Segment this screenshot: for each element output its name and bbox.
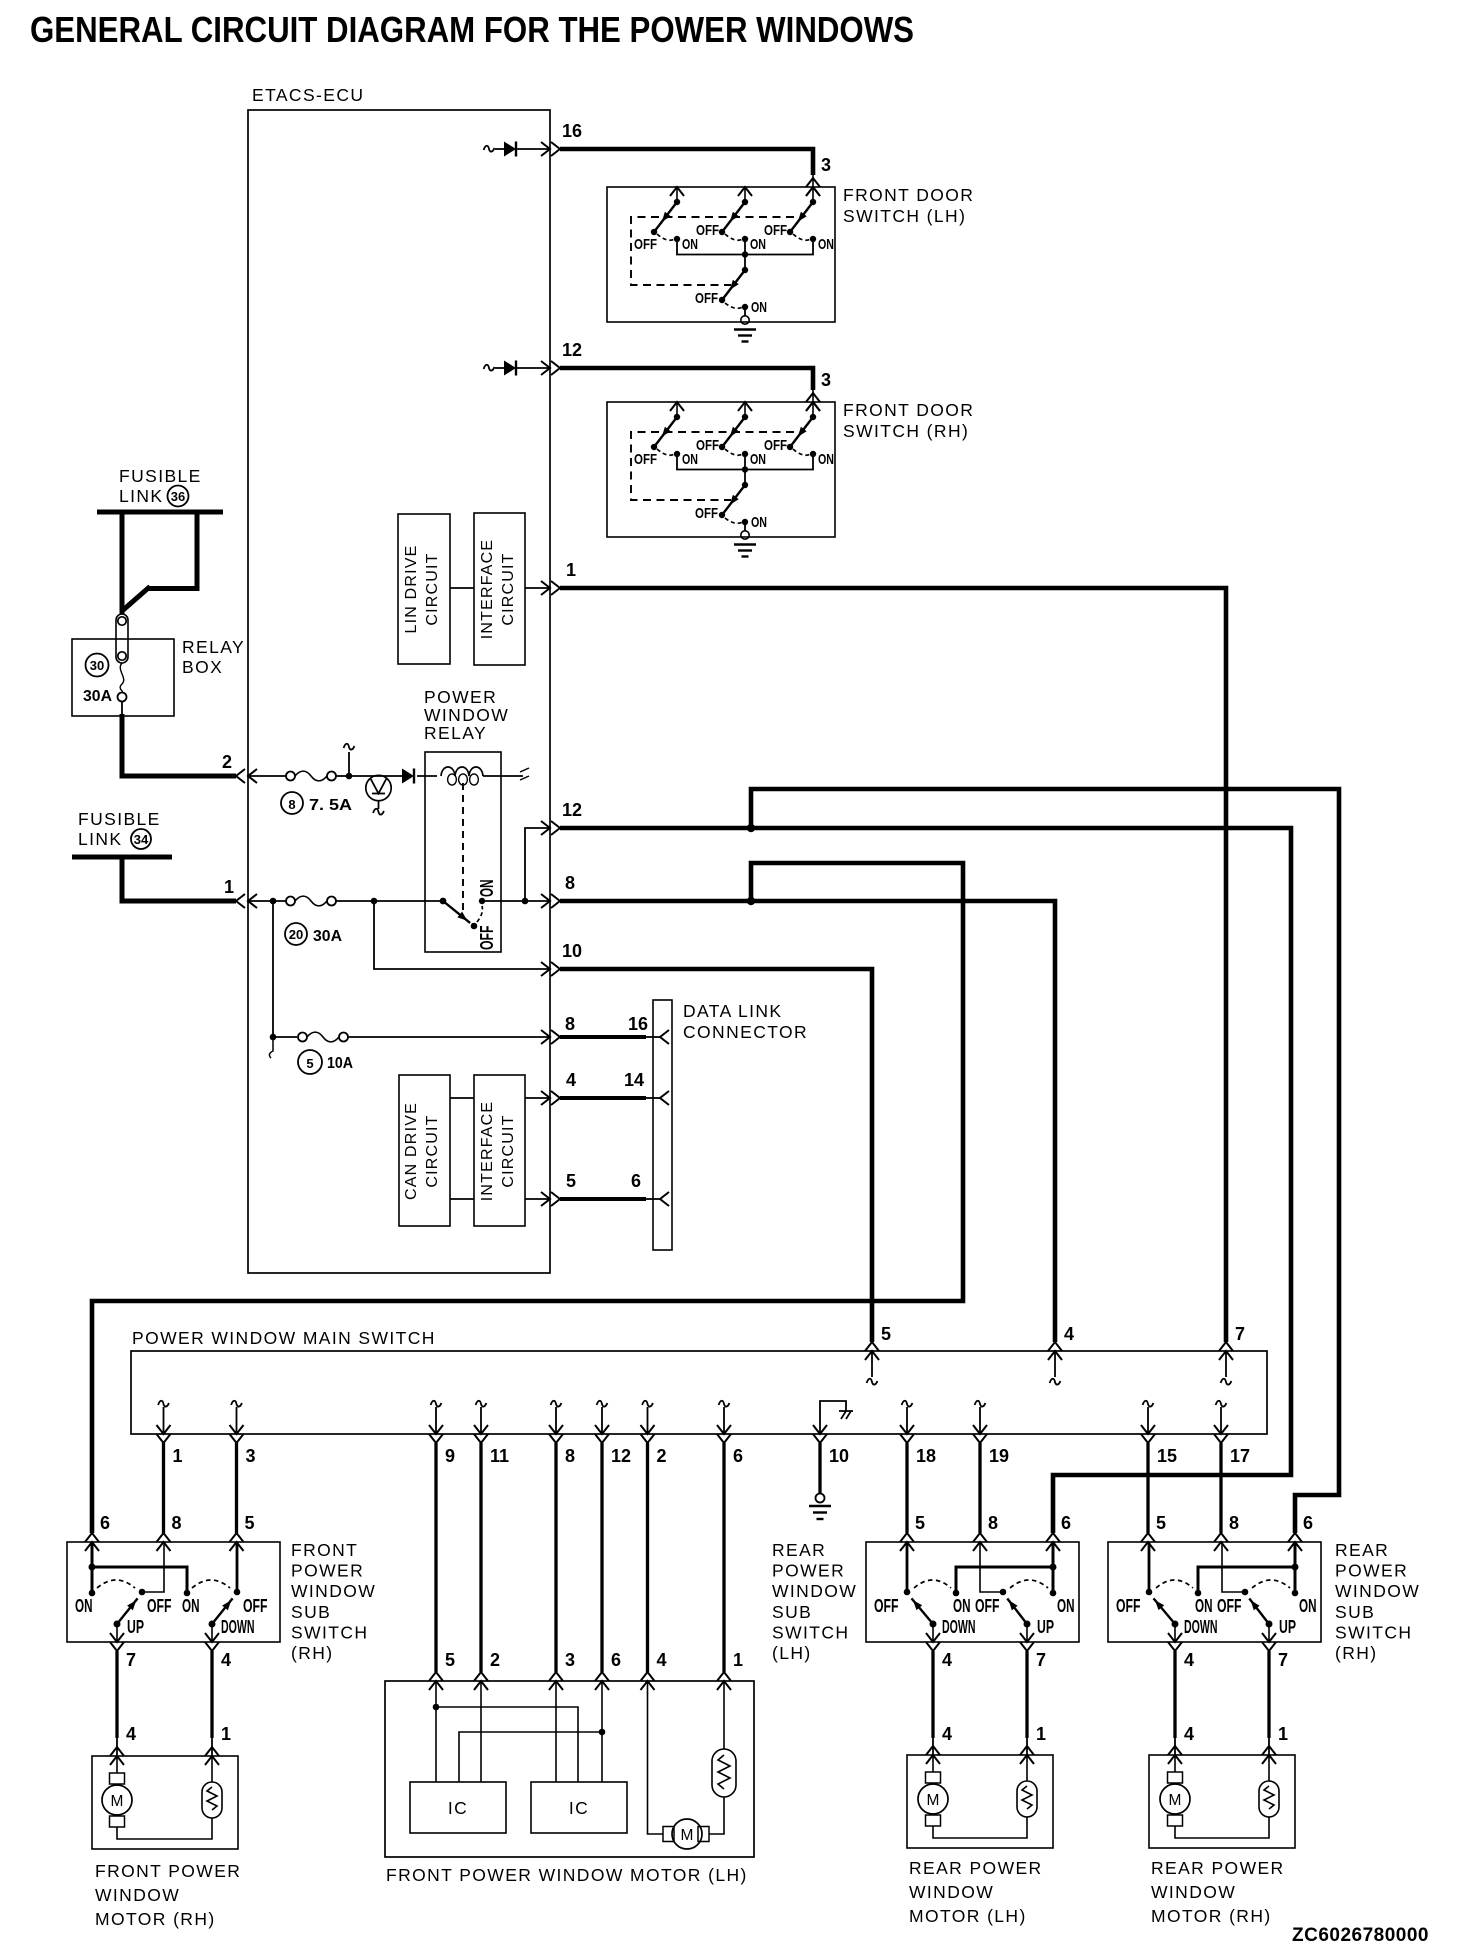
wire: interface to ECU pin 4 [525, 1097, 550, 1099]
main switch top pin 4 connector [1048, 1351, 1062, 1360]
svg-text:POWER: POWER [1335, 1561, 1408, 1581]
svg-text:ON: ON [751, 514, 767, 531]
svg-text:7: 7 [1278, 1650, 1288, 1670]
wire: main switch to front motor LH pin 4 [646, 1443, 649, 1672]
wire: relay output to ECU pin 8 [482, 900, 550, 902]
svg-text:36: 36 [171, 489, 185, 504]
svg-text:12: 12 [611, 1446, 631, 1466]
rear power window sub switch RH ON contacts [1195, 1590, 1202, 1597]
svg-text:14: 14 [624, 1070, 644, 1090]
svg-text:4: 4 [221, 1650, 231, 1670]
svg-text:2: 2 [490, 1650, 500, 1670]
svg-text:1: 1 [566, 560, 576, 580]
wire: interface to ECU pin 5 [525, 1198, 550, 1200]
svg-text:30: 30 [90, 658, 104, 673]
svg-text:4: 4 [566, 1070, 576, 1090]
door switch (LH) door-ajar contact pivot [742, 267, 748, 273]
motor pin 4 connector [1168, 1755, 1182, 1764]
wire: LIN drive to interface [450, 587, 474, 589]
svg-text:DOWN: DOWN [942, 1617, 976, 1637]
main switch bottom pin 15 [1143, 1401, 1154, 1407]
svg-text:4: 4 [126, 1724, 136, 1744]
rear sub switch RH pin 6 connector [1288, 1542, 1302, 1551]
svg-text:RELAY: RELAY [424, 723, 487, 743]
wire: interface to ECU pin 1 [525, 587, 550, 589]
rear power window sub switch RH DOWN switch blade [1172, 1621, 1179, 1628]
svg-text:LIN DRIVE: LIN DRIVE [403, 544, 420, 633]
svg-text:POWER: POWER [772, 1561, 845, 1581]
fusible link element [116, 614, 128, 663]
front door switch (LH) mechanical linkage dashed outline [631, 217, 794, 285]
wire: main switch to rear sub switch (x=980) [978, 1443, 981, 1533]
svg-text:CAN DRIVE: CAN DRIVE [403, 1102, 420, 1200]
door switch (RH) contact 2 blade [722, 417, 745, 447]
door switch (RH) ground [744, 522, 746, 531]
rear power window sub switch RH UP output to pin 7 [1268, 1624, 1270, 1642]
front motor LH breaker/resistor [723, 1681, 725, 1749]
door switch (RH) door-ajar contact pivot [742, 482, 748, 488]
fusible link 36 bus bar [97, 510, 223, 515]
front power window sub switch RH power feed (pin 6) [91, 1542, 94, 1593]
relay coil L1 [441, 767, 483, 776]
interface circuit box (lower) [474, 1075, 525, 1226]
rear power window sub switch RH DOWN output to pin 4 [1174, 1624, 1176, 1642]
svg-text:1: 1 [173, 1446, 183, 1466]
svg-text:IC: IC [569, 1798, 589, 1818]
front door switch LH pin 3 connector [806, 187, 820, 196]
front power window motor RH box [92, 1756, 238, 1849]
front power window sub switch RH power bridge [92, 1567, 187, 1593]
svg-text:ON: ON [818, 236, 834, 253]
fuse 5 (10A) [273, 1036, 297, 1038]
node: pin 8 branch [747, 897, 755, 905]
fuse 20 label [285, 923, 307, 945]
svg-text:16: 16 [628, 1014, 648, 1034]
svg-text:SWITCH (RH): SWITCH (RH) [843, 421, 969, 441]
rear sub switch LH pin 5 connector [900, 1542, 914, 1551]
rear power window sub switch LH box [866, 1542, 1079, 1642]
svg-text:WINDOW: WINDOW [291, 1581, 376, 1601]
door switch (RH) contact 2 ON contact dashed [725, 449, 743, 455]
svg-text:M: M [111, 1793, 124, 1810]
svg-text:RELAY: RELAY [182, 637, 245, 657]
svg-text:ON: ON [818, 451, 834, 468]
svg-text:OFF: OFF [874, 1596, 899, 1616]
door switch (LH) common rail [677, 239, 813, 255]
main switch bottom pin 6 [719, 1401, 730, 1407]
svg-text:7: 7 [1036, 1650, 1046, 1670]
svg-text:4: 4 [1064, 1324, 1074, 1344]
svg-text:POWER WINDOW MAIN SWITCH: POWER WINDOW MAIN SWITCH [132, 1328, 436, 1348]
wire: sub switch pin 4 to motor pin 4 [1173, 1651, 1176, 1738]
fuse 8 (7.5A) [248, 775, 286, 777]
main switch internal ground (pin 10) [820, 1401, 846, 1434]
wire: main switch to front motor LH pin 3 [554, 1443, 557, 1672]
front motor LH internal wiring [435, 1681, 437, 1782]
svg-text:OFF: OFF [1116, 1596, 1141, 1616]
relay actuation dashed link [462, 783, 464, 916]
svg-text:OFF: OFF [634, 236, 657, 253]
door switch (LH) contact 1 blade [654, 202, 677, 232]
rear power window sub switch LH UP switch dashed travel [1010, 1580, 1048, 1588]
svg-text:34: 34 [134, 832, 149, 847]
svg-text:SWITCH (LH): SWITCH (LH) [843, 206, 966, 226]
svg-text:1: 1 [221, 1724, 231, 1744]
sub switch output pin 7 connector [1020, 1633, 1034, 1642]
wire: sub switch pin 7 to motor pin 4 [115, 1651, 118, 1738]
door switch (RH) contact 1 pin wire [676, 402, 678, 417]
relay box [72, 639, 174, 716]
rear power window sub switch LH UP output to pin 7 [1026, 1624, 1028, 1642]
svg-text:12: 12 [562, 340, 582, 360]
front door switch (LH) box [607, 187, 835, 322]
IC 2 [531, 1782, 627, 1833]
ECU pin 1 (battery feed) connector [248, 894, 257, 908]
data link connector box [653, 1000, 672, 1250]
svg-text:5: 5 [445, 1650, 455, 1670]
svg-text:FRONT DOOR: FRONT DOOR [843, 185, 974, 205]
svg-text:7: 7 [1235, 1324, 1245, 1344]
front door switch RH pin 3 connector [806, 402, 820, 411]
svg-text:CIRCUIT: CIRCUIT [424, 552, 441, 625]
svg-text:2: 2 [657, 1446, 667, 1466]
DLC pin 14 connector [660, 1091, 669, 1105]
svg-text:2: 2 [222, 752, 232, 772]
svg-text:WINDOW: WINDOW [95, 1885, 180, 1905]
motor pin 1 connector [1020, 1755, 1034, 1764]
svg-text:CONNECTOR: CONNECTOR [683, 1022, 808, 1042]
svg-text:7: 7 [126, 1650, 136, 1670]
svg-text:5: 5 [1156, 1513, 1166, 1533]
front power window sub switch RH box [67, 1542, 280, 1642]
svg-text:1: 1 [1036, 1724, 1046, 1744]
door switch (RH) common rail [677, 454, 813, 470]
door switch (RH) contact 1 pivot [674, 414, 680, 420]
wire: ECU pin 8 to DLC pin 16 [560, 1035, 646, 1039]
rear power window sub switch LH DOWN output to pin 4 [932, 1624, 934, 1642]
svg-text:17: 17 [1230, 1446, 1250, 1466]
svg-text:4: 4 [942, 1724, 952, 1744]
wire: sub switch pin 4 to motor pin 1 [210, 1651, 213, 1738]
front sub switch RH pin 5 connector [230, 1542, 244, 1551]
power window relay box [425, 752, 501, 952]
svg-text:OFF: OFF [696, 222, 719, 239]
ECU internal diode D2 for pin 12 [484, 365, 495, 371]
node: pin 12 branch [747, 824, 755, 832]
wire: ECU pin 4 to DLC pin 14 [560, 1096, 646, 1100]
rear sub switch RH pin 8 connector [1214, 1542, 1228, 1551]
svg-text:3: 3 [565, 1650, 575, 1670]
svg-text:(RH): (RH) [1335, 1643, 1378, 1663]
front sub switch RH pin 8 connector [157, 1542, 171, 1551]
svg-text:10: 10 [562, 941, 582, 961]
ECU pin 12 connector (door RH) [541, 361, 550, 375]
main switch bottom pin 8 [551, 1401, 562, 1407]
svg-text:1: 1 [224, 877, 234, 897]
DLC pin 16 connector [660, 1030, 669, 1044]
wire: fusible link 34 to ECU pin 1 [122, 857, 236, 901]
ECU pin 5 connector [541, 1192, 550, 1206]
motor pin 1 connector [1262, 1755, 1276, 1764]
svg-text:8: 8 [565, 1014, 575, 1034]
door switch (LH) contact 3 blade [790, 202, 813, 232]
svg-text:POWER: POWER [424, 687, 497, 707]
door switch (LH) door-ajar blade [722, 270, 745, 300]
svg-text:6: 6 [1061, 1513, 1071, 1533]
wire: relay box to ECU pin 2 [122, 714, 236, 776]
svg-text:REAR POWER: REAR POWER [909, 1858, 1043, 1878]
rear power window sub switch RH power bridge [1198, 1567, 1295, 1593]
main switch bottom pin 17 [1216, 1401, 1227, 1407]
svg-text:M: M [1169, 1792, 1182, 1809]
svg-text:ON: ON [182, 1596, 200, 1616]
zener surge absorber Z1 [349, 775, 402, 777]
wire: main switch to front motor LH pin 6 [600, 1443, 603, 1672]
svg-text:ON: ON [1299, 1596, 1317, 1616]
main switch bottom pin 3 [231, 1401, 242, 1407]
svg-text:30A: 30A [313, 928, 342, 945]
rear power window sub switch LH ON contacts [953, 1590, 960, 1597]
main switch bottom pin 18 [902, 1401, 913, 1407]
svg-text:MOTOR (LH): MOTOR (LH) [909, 1906, 1027, 1926]
door switch (RH) contact 3 pin wire [812, 402, 814, 417]
front power window motor RH internal wire [117, 1818, 212, 1839]
sub switch output pin 7 connector [1262, 1633, 1276, 1642]
rear power window sub switch LH DOWN switch dashed travel [914, 1580, 951, 1588]
door switch (RH) contact 3 ON contact dashed [793, 449, 811, 455]
svg-text:CIRCUIT: CIRCUIT [500, 1114, 517, 1187]
svg-text:8: 8 [1229, 1513, 1239, 1533]
stub terminator below fuse 5 junction [269, 1037, 273, 1058]
front motor LH pin 6 connector [595, 1681, 609, 1690]
svg-text:M: M [927, 1792, 940, 1809]
rear power window motor LH box [907, 1755, 1053, 1848]
ECU internal diode D1 for pin 16 [484, 146, 495, 152]
svg-text:5: 5 [881, 1324, 891, 1344]
svg-text:6: 6 [611, 1650, 621, 1670]
svg-text:ON: ON [1057, 1596, 1075, 1616]
relay coil terminator [520, 768, 529, 780]
svg-text:GENERAL CIRCUIT DIAGRAM FOR TH: GENERAL CIRCUIT DIAGRAM FOR THE POWER WI… [30, 9, 914, 50]
svg-text:MOTOR (RH): MOTOR (RH) [95, 1909, 216, 1929]
wire: main pin 10 to ground [818, 1443, 821, 1494]
svg-text:8: 8 [565, 1446, 575, 1466]
svg-text:WINDOW: WINDOW [772, 1581, 857, 1601]
door switch (RH) contact 3 pivot [810, 414, 816, 420]
door switch (LH) contact 2 pin wire [744, 187, 746, 202]
svg-text:OFF: OFF [477, 926, 497, 951]
svg-text:10A: 10A [327, 1055, 353, 1072]
svg-text:OFF: OFF [764, 222, 787, 239]
wire: ECU pin 12 to front door switch RH pin 3 [560, 368, 813, 390]
main switch bottom pin 1 [158, 1401, 169, 1407]
svg-text:SWITCH: SWITCH [1335, 1622, 1412, 1642]
motor pin 4 connector [926, 1755, 940, 1764]
wire: pin 8 branch to front sub switch pin 6 [92, 863, 963, 1533]
rear power window motor RH box [1149, 1755, 1295, 1848]
main switch top pin 5 connector [865, 1351, 879, 1360]
svg-text:5: 5 [306, 1056, 313, 1071]
rear power window sub switch RH UP switch blade [1266, 1621, 1273, 1628]
door switch (LH) contact 2 blade [722, 202, 745, 232]
svg-text:20: 20 [289, 927, 303, 942]
svg-text:ON: ON [751, 299, 767, 316]
door switch (LH) contact 3 pivot [810, 199, 816, 205]
svg-text:SUB: SUB [291, 1602, 331, 1622]
door switch (LH) contact 3 pin wire [812, 187, 814, 202]
door switch (RH) contact 2 pin wire [744, 402, 746, 417]
svg-text:OFF: OFF [147, 1596, 172, 1616]
front motor LH pin 1 connector [717, 1681, 731, 1690]
wire: main switch to front motor LH pin 2 [479, 1443, 482, 1672]
svg-text:15: 15 [1157, 1446, 1177, 1466]
interface circuit box (upper) [474, 513, 525, 665]
svg-text:FUSIBLE: FUSIBLE [78, 809, 161, 829]
svg-text:4: 4 [1184, 1724, 1194, 1744]
front power window sub switch RH DOWN switch blade [209, 1621, 216, 1628]
ECU pin 8 connector [541, 894, 550, 908]
svg-text:OFF: OFF [1217, 1596, 1242, 1616]
rear power window sub switch RH DOWN switch dashed travel [1156, 1580, 1193, 1588]
door switch (RH) contact 3 blade [790, 417, 813, 447]
svg-text:5: 5 [915, 1513, 925, 1533]
svg-text:3: 3 [246, 1446, 256, 1466]
DLC pin 6 connector [660, 1192, 669, 1206]
relay box fuse 30 element [120, 663, 124, 692]
front sub switch RH pin 6 connector [85, 1542, 99, 1551]
svg-text:5: 5 [566, 1171, 576, 1191]
door switch (RH) contact 1 blade [654, 417, 677, 447]
svg-text:12: 12 [562, 800, 582, 820]
svg-text:19: 19 [989, 1446, 1009, 1466]
rear power window sub switch LH DOWN switch blade [930, 1621, 937, 1628]
svg-text:SUB: SUB [772, 1602, 812, 1622]
svg-text:LINK: LINK [78, 829, 123, 849]
front power window sub switch RH UP output to pin 7 [116, 1624, 118, 1642]
svg-text:DOWN: DOWN [221, 1617, 255, 1637]
rear power window motor LH breaker/resistor [1026, 1755, 1028, 1781]
svg-text:SWITCH: SWITCH [291, 1622, 368, 1642]
CAN drive circuit box [399, 1075, 450, 1226]
front door switch (RH) mechanical linkage dashed outline [631, 432, 794, 500]
svg-text:ZC6026780000: ZC6026780000 [1292, 1925, 1429, 1946]
svg-text:M: M [681, 1827, 694, 1844]
front motor LH M armature [648, 1681, 664, 1834]
svg-text:18: 18 [916, 1446, 936, 1466]
svg-text:OFF: OFF [764, 437, 787, 454]
door switch (LH) contact 1 ON contact dashed [657, 234, 675, 240]
wire: ECU pin 1 to main switch pin 7 [560, 588, 1226, 1342]
svg-text:WINDOW: WINDOW [1151, 1882, 1236, 1902]
wire: main pin 1 to front sub pin 8 [162, 1443, 165, 1533]
rear power window motor LH internal wire [933, 1817, 1027, 1838]
svg-text:6: 6 [100, 1513, 110, 1533]
svg-text:ON: ON [75, 1596, 93, 1616]
svg-text:OFF: OFF [975, 1596, 1000, 1616]
svg-text:WINDOW: WINDOW [1335, 1581, 1420, 1601]
front power window sub switch RH UP switch blade [114, 1621, 121, 1628]
rear power window sub switch RH box [1108, 1542, 1321, 1642]
wire: sub switch pin 7 to motor pin 1 [1267, 1651, 1270, 1738]
main switch bottom pin 12 [597, 1401, 608, 1407]
door switch (RH) contact 1 ON contact dashed [657, 449, 675, 455]
wire: relay output to ECU pin 12 [525, 828, 550, 901]
door switch (RH) door-ajar ON dashed [725, 518, 743, 523]
svg-text:UP: UP [127, 1617, 144, 1637]
front motor LH pin 2 connector [474, 1681, 488, 1690]
door switch (LH) contact 2 pivot [742, 199, 748, 205]
rear sub switch LH pin 6 connector [1046, 1542, 1060, 1551]
wire: ECU pin 5 to DLC pin 6 [560, 1197, 646, 1201]
svg-text:UP: UP [1037, 1617, 1054, 1637]
wire: junction down to fuse 5 [272, 901, 274, 1037]
ECU pin 10 connector [541, 962, 550, 976]
wire: main switch to rear sub switch (x=1221) [1219, 1443, 1222, 1533]
relay switch [440, 898, 447, 905]
rear power window motor RH M armature [1174, 1755, 1176, 1772]
rear power window sub switch LH pin 8 wire to UP-switch OFF contact [980, 1542, 1003, 1592]
main switch top pin 7 connector [1219, 1351, 1233, 1360]
svg-text:CIRCUIT: CIRCUIT [500, 552, 517, 625]
svg-text:LINK: LINK [119, 486, 164, 506]
rear power window sub switch RH UP switch dashed travel [1252, 1580, 1290, 1588]
door switch (LH) ground [744, 307, 746, 316]
svg-text:FRONT DOOR: FRONT DOOR [843, 400, 974, 420]
main switch bottom pin 2 [642, 1401, 653, 1407]
front power window sub switch RH pin 5 wire to DOWN-switch OFF contact [236, 1542, 239, 1592]
front power window motor LH box [385, 1681, 754, 1857]
svg-text:6: 6 [631, 1171, 641, 1191]
svg-text:FRONT POWER WINDOW MOTOR (LH): FRONT POWER WINDOW MOTOR (LH) [386, 1865, 748, 1885]
rear power window motor LH M armature [932, 1755, 934, 1772]
svg-text:4: 4 [1184, 1650, 1194, 1670]
svg-text:ON: ON [477, 880, 497, 898]
ECU pin 12 connector (relay out) [541, 821, 550, 835]
wire: sub switch pin 4 to motor pin 4 [931, 1651, 934, 1738]
svg-text:6: 6 [733, 1446, 743, 1466]
main switch bottom pin 10 [813, 1425, 827, 1434]
wire: ECU pin 10 to main switch pin 5 [560, 969, 872, 1342]
svg-text:WINDOW: WINDOW [909, 1882, 994, 1902]
svg-text:30A: 30A [83, 688, 112, 705]
door switch (LH) contact 1 pin wire [676, 187, 678, 202]
wire: main switch to rear sub switch (x=1148) [1146, 1443, 1149, 1533]
wire: bus to fusible link element [120, 512, 125, 614]
svg-text:IC: IC [448, 1798, 468, 1818]
door switch (LH) contact 1 pivot [674, 199, 680, 205]
svg-text:7. 5A: 7. 5A [309, 797, 352, 814]
svg-text:OFF: OFF [695, 505, 718, 522]
main switch bottom pin 19 [975, 1401, 986, 1407]
wire: main switch to front motor LH pin 5 [434, 1443, 437, 1672]
node: relay coil feed junction [346, 773, 353, 780]
LIN drive circuit box [398, 514, 450, 664]
svg-text:INTERFACE: INTERFACE [479, 1101, 496, 1202]
sub switch output pin 7 connector [110, 1633, 124, 1642]
front power window motor RH M armature [116, 1756, 118, 1773]
front motor LH pin 3 connector [549, 1681, 563, 1690]
diode D3 (relay coil) [402, 769, 414, 784]
door switch (LH) contact 3 ON contact dashed [793, 234, 811, 240]
fuse 30 label [86, 654, 109, 677]
svg-text:REAR: REAR [1335, 1540, 1389, 1560]
ETACS-ECU box [248, 110, 550, 1273]
fuse 20 (30A) [248, 900, 286, 902]
wire: ECU pin 8 to main switch pin 4 [560, 901, 1055, 1342]
IC 1 [410, 1782, 506, 1833]
node: pin10 branch junction [371, 898, 378, 905]
svg-text:OFF: OFF [695, 290, 718, 307]
